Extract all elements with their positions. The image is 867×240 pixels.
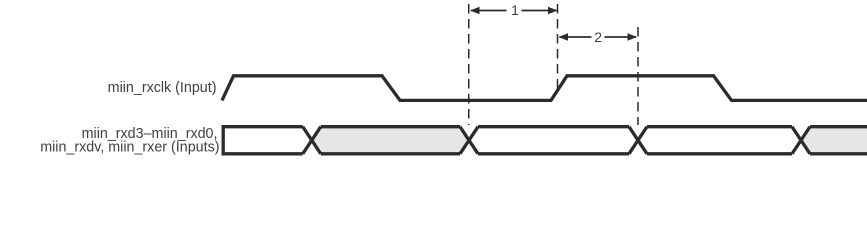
svg-text:miin_rxclk (Input): miin_rxclk (Input)	[108, 80, 217, 96]
svg-text:miin_rxdv, miin_rxer (Inputs): miin_rxdv, miin_rxer (Inputs)	[40, 139, 219, 155]
svg-text:2: 2	[594, 29, 602, 45]
svg-text:1: 1	[511, 2, 519, 18]
